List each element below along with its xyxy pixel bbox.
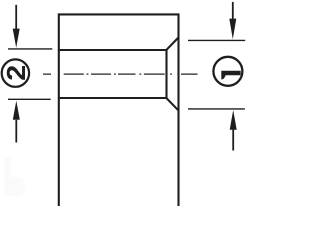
countersink top chamfer diagonal (167, 38, 179, 50)
dimension 2 up arrow (13, 101, 20, 143)
dimension 2 top extension line (8, 48, 52, 50)
countersink bottom chamfer diagonal (167, 98, 179, 110)
dimension 1 up arrow (230, 110, 237, 151)
dimension 1 bottom extension line (188, 108, 245, 110)
dimension 2 down arrow (13, 5, 20, 48)
dimension 1 down arrow (229, 2, 236, 39)
bore bottom line (59, 97, 167, 99)
digit 1 (rotated 90deg ccw, drawn as path: bar plus flag nub) (221, 71, 240, 80)
dimension 2 bottom extension line (8, 98, 51, 100)
dimension 1 top extension line (188, 39, 245, 41)
bore top line (59, 49, 167, 51)
body outline: sleeve side view (left edge, top edge, right edge) (59, 14, 179, 206)
centerline (dash-dot axis) (43, 73, 198, 75)
callout circle 2 (2, 59, 29, 86)
callout circle 1 (213, 57, 242, 86)
faint background watermark blob (5, 158, 25, 196)
digit 2 (rotated 90deg ccw, glyph outline path) (7, 66, 25, 80)
countersink inner vertical edge (165, 50, 167, 98)
